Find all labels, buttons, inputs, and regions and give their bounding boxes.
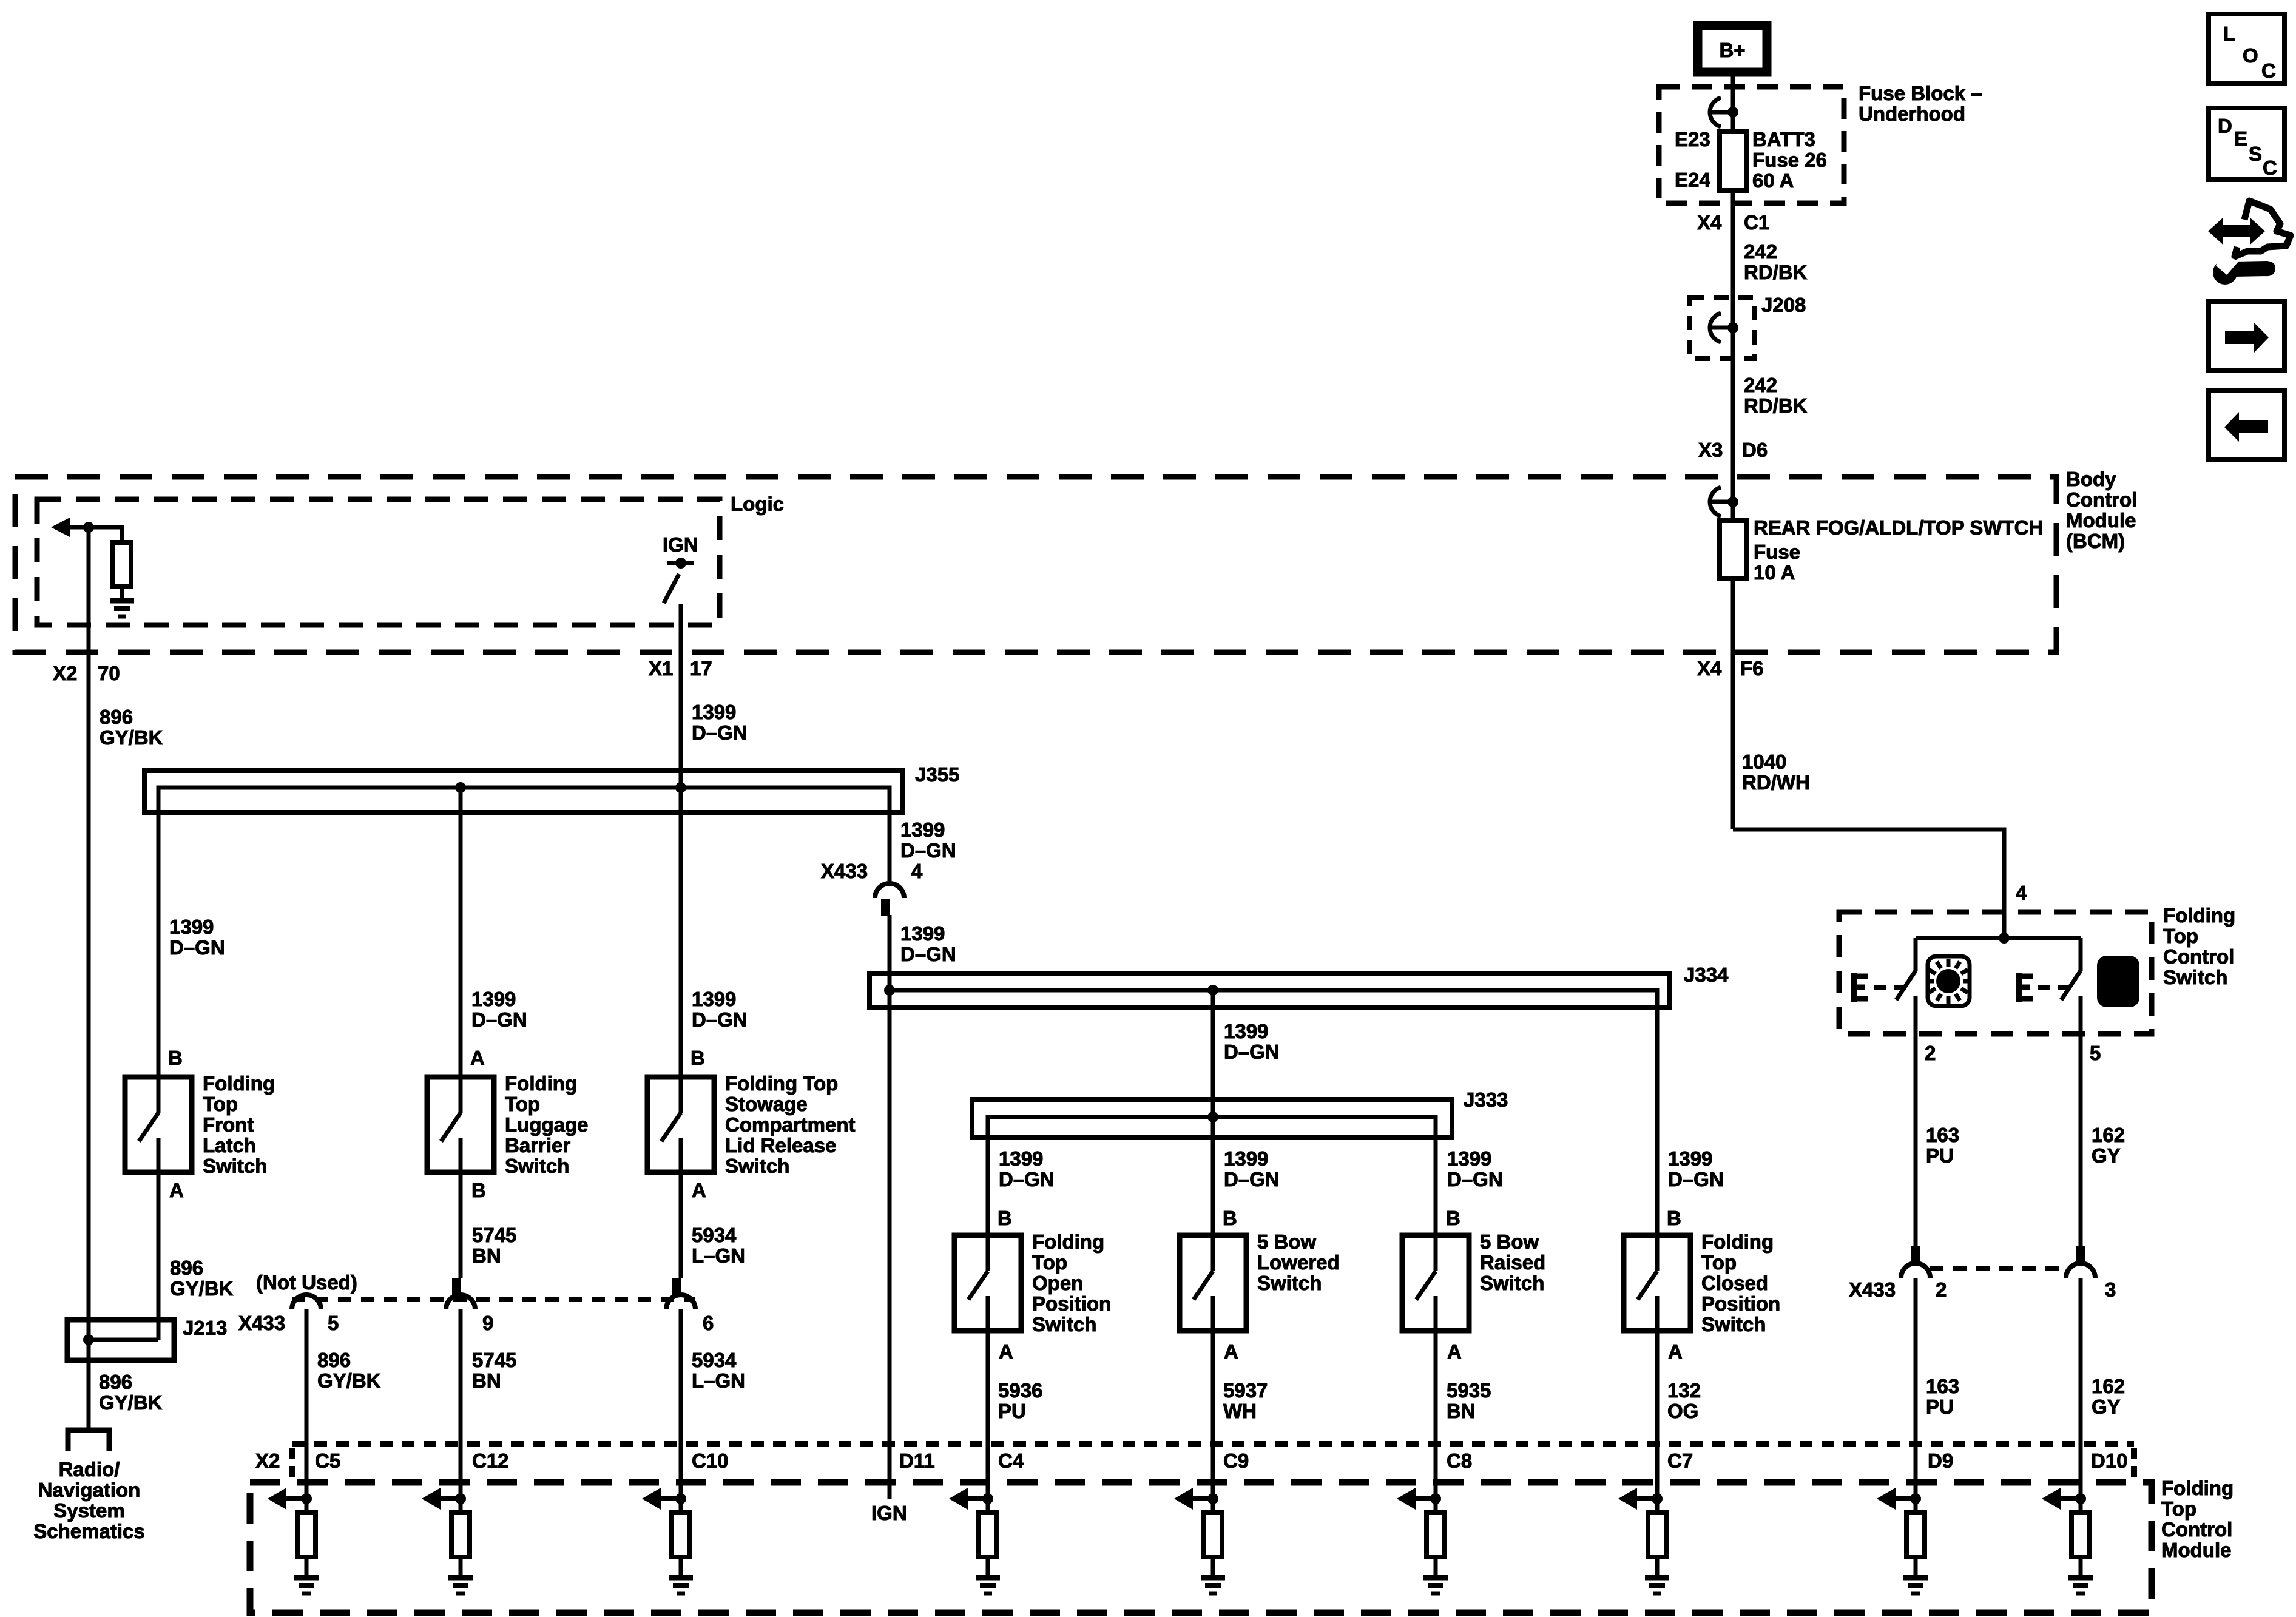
junction dot at splice J213 — [83, 1334, 94, 1345]
ground at C12 — [448, 1578, 473, 1593]
wire 5934 L-GN stowage lid release switch to X433-6 — [679, 1172, 683, 1278]
svg-text:Switch: Switch — [1032, 1313, 1096, 1335]
svg-text:1399: 1399 — [900, 922, 945, 945]
svg-text:1399: 1399 — [1668, 1147, 1712, 1170]
switch: 5 Bow Lowered Switch — [1180, 1235, 1246, 1331]
wire resistor to ground at C8 — [1434, 1557, 1438, 1576]
connector X433 cavity 4 — [875, 883, 904, 898]
svg-text:1399: 1399 — [999, 1147, 1043, 1170]
svg-text:REAR FOG/ALDL/TOP SWTCH: REAR FOG/ALDL/TOP SWTCH — [1754, 516, 2043, 539]
svg-text:Switch: Switch — [203, 1155, 267, 1177]
svg-text:BN: BN — [1447, 1400, 1476, 1422]
wire resistor to ground at C5 — [305, 1557, 309, 1576]
wire 1399 D-GN J333 to 5 bow lowered switch — [1211, 1117, 1215, 1235]
switch: Folding Top Closed Position Switch — [1624, 1235, 1690, 1331]
wire 5937 WH 5 bow lowered switch to module C9 — [1211, 1331, 1215, 1513]
svg-text:5934: 5934 — [692, 1224, 737, 1246]
svg-text:17: 17 — [690, 657, 712, 680]
svg-text:A: A — [470, 1047, 485, 1069]
svg-text:(Not Used): (Not Used) — [256, 1271, 357, 1294]
Folding Top Control Module dashed box — [250, 1482, 2152, 1613]
connector X433 cavity 3 — [2066, 1263, 2095, 1278]
svg-text:D–GN: D–GN — [169, 936, 225, 959]
svg-text:5: 5 — [328, 1312, 339, 1334]
svg-text:60 A: 60 A — [1752, 169, 1794, 192]
wire 896 GY/BK front latch switch to J213 — [157, 1172, 161, 1340]
wire resistor to ground at C9 — [1211, 1557, 1215, 1576]
svg-text:J333: J333 — [1464, 1089, 1508, 1111]
svg-text:GY/BK: GY/BK — [317, 1369, 381, 1392]
svg-text:F6: F6 — [1740, 657, 1764, 680]
fuse BATT3 Fuse 26 60A — [1720, 132, 1746, 191]
svg-text:Position: Position — [1032, 1292, 1111, 1315]
junction dot J334 center — [1207, 985, 1218, 996]
resistor at C8 — [1427, 1513, 1445, 1557]
svg-text:WH: WH — [1223, 1400, 1257, 1422]
module connector boundary (thin dashed) — [292, 1444, 2134, 1480]
svg-text:O: O — [2243, 44, 2258, 67]
svg-text:C7: C7 — [1667, 1450, 1693, 1472]
svg-text:D–GN: D–GN — [900, 839, 956, 862]
right switch contact of control switch (open) — [2061, 938, 2081, 1000]
off-page arrow at C10 — [642, 1488, 681, 1510]
svg-text:Underhood: Underhood — [1859, 103, 1965, 125]
svg-text:GY: GY — [2092, 1144, 2121, 1167]
fuse REAR FOG/ALDL/TOP SWTCH 10A — [1720, 521, 1746, 579]
svg-text:C: C — [2263, 157, 2277, 179]
svg-text:Top: Top — [505, 1093, 540, 1115]
svg-text:Folding: Folding — [2163, 904, 2235, 927]
resistor at D9 — [1906, 1513, 1925, 1557]
wire 5934 L-GN X433-6 to module C10 — [679, 1309, 683, 1513]
svg-text:Switch: Switch — [1480, 1272, 1544, 1294]
ground at C9 — [1201, 1578, 1225, 1593]
switch: 5 Bow Raised Switch — [1402, 1235, 1469, 1331]
svg-text:C1: C1 — [1744, 211, 1769, 234]
svg-text:A: A — [692, 1179, 706, 1201]
svg-text:Folding: Folding — [505, 1072, 577, 1095]
splice J213 box — [67, 1320, 174, 1360]
svg-text:X4: X4 — [1697, 211, 1722, 234]
svg-text:X433: X433 — [1849, 1278, 1896, 1301]
svg-text:Folding Top: Folding Top — [725, 1072, 838, 1095]
off-page arrow at C12 — [422, 1488, 461, 1510]
junction dot at D10 — [2075, 1493, 2086, 1504]
svg-text:1040: 1040 — [1742, 751, 1786, 773]
svg-text:D–GN: D–GN — [692, 1008, 748, 1031]
male pin X433-4 — [881, 899, 890, 916]
svg-text:Fuse 26: Fuse 26 — [1752, 149, 1827, 171]
svg-text:1399: 1399 — [692, 701, 736, 723]
resistor at C5 — [297, 1513, 316, 1557]
svg-text:D–GN: D–GN — [1224, 1168, 1280, 1190]
svg-text:BATT3: BATT3 — [1752, 128, 1815, 150]
wire resistor to ground at D10 — [2079, 1557, 2083, 1576]
splice pack J334 — [869, 973, 1670, 1008]
svg-text:1399: 1399 — [1447, 1147, 1491, 1170]
svg-text:RD/WH: RD/WH — [1742, 771, 1810, 794]
resistor at C12 — [451, 1513, 470, 1557]
junction dot inside control switch — [1999, 933, 2010, 944]
ground at D9 — [1903, 1578, 1928, 1593]
junction dot at C9 — [1207, 1493, 1218, 1504]
ground at D10 — [2068, 1578, 2093, 1593]
svg-text:A: A — [1447, 1340, 1462, 1363]
svg-text:A: A — [999, 1340, 1013, 1363]
svg-text:C9: C9 — [1223, 1450, 1249, 1472]
svg-text:Stowage: Stowage — [725, 1093, 808, 1115]
wire 1399 D-GN J355 to X433-4 — [888, 788, 892, 883]
junction dot at C4 — [982, 1493, 993, 1504]
resistor at C9 — [1204, 1513, 1222, 1557]
svg-text:S: S — [2249, 143, 2262, 165]
svg-text:E: E — [2234, 127, 2247, 150]
svg-text:132: 132 — [1667, 1379, 1701, 1402]
svg-text:5936: 5936 — [998, 1379, 1042, 1402]
svg-text:X1: X1 — [649, 657, 673, 680]
switch: Folding Top Open Position Switch — [954, 1235, 1021, 1331]
svg-text:GY: GY — [2092, 1396, 2121, 1418]
male pin X433-2 — [1911, 1246, 1920, 1263]
svg-text:Control: Control — [2066, 488, 2137, 511]
svg-text:Folding: Folding — [1032, 1230, 1104, 1253]
wire 1399 D-GN J334 to closed position switch — [1655, 1008, 1660, 1235]
junction dot J355 to luggage barrier switch — [455, 782, 466, 793]
svg-text:Lid Release: Lid Release — [725, 1134, 836, 1156]
svg-text:Closed: Closed — [1701, 1272, 1768, 1294]
svg-text:D6: D6 — [1742, 439, 1768, 461]
svg-text:IGN: IGN — [871, 1502, 907, 1524]
wire 163 PU X433-2 to module D9 — [1914, 1278, 1918, 1513]
svg-text:896: 896 — [170, 1257, 203, 1279]
DESC icon box — [2209, 108, 2284, 180]
svg-text:(BCM): (BCM) — [2066, 530, 2125, 552]
junction dot at C12 — [455, 1493, 466, 1504]
svg-text:5: 5 — [2090, 1042, 2101, 1064]
svg-text:B: B — [690, 1047, 705, 1069]
svg-text:242: 242 — [1744, 240, 1777, 263]
svg-text:J213: J213 — [183, 1317, 227, 1339]
svg-text:Control: Control — [2161, 1518, 2232, 1541]
svg-text:Top: Top — [2163, 925, 2198, 947]
svg-text:5745: 5745 — [472, 1349, 516, 1371]
svg-text:X2: X2 — [53, 662, 77, 684]
wire resistor to ground at C12 — [459, 1557, 463, 1576]
svg-text:X433: X433 — [238, 1312, 285, 1334]
svg-text:J334: J334 — [1684, 964, 1729, 986]
svg-text:X2: X2 — [255, 1450, 280, 1472]
resistor at C7 — [1648, 1513, 1666, 1557]
svg-text:Navigation: Navigation — [38, 1479, 141, 1501]
svg-text:10 A: 10 A — [1754, 561, 1795, 584]
svg-text:163: 163 — [1926, 1375, 1959, 1397]
off-page arrow at D10 — [2042, 1488, 2081, 1510]
svg-text:5935: 5935 — [1447, 1379, 1491, 1402]
junction dot at C8 — [1430, 1493, 1441, 1504]
svg-text:Top: Top — [203, 1093, 238, 1115]
svg-text:C8: C8 — [1447, 1450, 1472, 1472]
svg-text:B: B — [168, 1047, 183, 1069]
svg-text:4: 4 — [2016, 882, 2027, 904]
wire B+ down to BCM (242 RD/BK then through fuses) — [1731, 72, 1735, 829]
svg-text:3: 3 — [2105, 1278, 2116, 1301]
off-page arrow inside Logic — [51, 518, 89, 537]
wire 896 GY/BK X433-5 to module C5 — [305, 1309, 309, 1513]
svg-text:E24: E24 — [1675, 169, 1710, 191]
off-page arrow at D9 — [1877, 1488, 1916, 1510]
X433 inline connector dashed line (left) — [292, 1297, 695, 1302]
fuse block underhood dashed box — [1659, 87, 1844, 203]
svg-text:5745: 5745 — [472, 1224, 516, 1246]
male pin X433-6 — [672, 1278, 681, 1296]
off-page arrow at C9 — [1174, 1488, 1213, 1510]
Body Control Module dashed box — [15, 477, 2056, 652]
svg-text:4: 4 — [911, 860, 923, 882]
svg-text:Fuse: Fuse — [1754, 541, 1800, 563]
wire resistor to ground in Logic box — [120, 587, 124, 599]
svg-text:B+: B+ — [1719, 39, 1745, 61]
junction dot J355 at ignition feed — [675, 782, 686, 793]
svg-text:5 Bow: 5 Bow — [1257, 1230, 1317, 1253]
black button icon — [2097, 956, 2139, 1007]
svg-text:Top: Top — [1032, 1251, 1067, 1274]
wire 162 GY control switch to X433-3 — [2079, 996, 2083, 1246]
junction dot at C10 — [675, 1493, 686, 1504]
svg-text:Switch: Switch — [725, 1155, 789, 1177]
E position marker right — [2016, 973, 2070, 1002]
junction dot at C5 — [301, 1493, 312, 1504]
wire 162 GY X433-3 to module D10 — [2079, 1278, 2083, 1513]
svg-text:D–GN: D–GN — [1224, 1041, 1280, 1063]
resistor at C4 — [979, 1513, 997, 1557]
svg-text:1399: 1399 — [1224, 1147, 1268, 1170]
svg-text:1399: 1399 — [1224, 1020, 1268, 1042]
svg-text:Logic: Logic — [731, 493, 784, 515]
svg-text:Switch: Switch — [2163, 966, 2227, 988]
svg-text:1399: 1399 — [692, 988, 736, 1010]
svg-text:B: B — [1667, 1207, 1681, 1229]
clip terminal at BCM fuse — [1710, 487, 1738, 516]
svg-text:5934: 5934 — [692, 1349, 737, 1371]
wire 1399 D-GN J355 to front latch switch — [157, 788, 161, 1077]
back arrow icon box — [2209, 391, 2284, 460]
ground at C5 — [294, 1578, 319, 1593]
svg-text:Folding: Folding — [2161, 1477, 2234, 1499]
switch: Folding Top Front Latch Switch — [125, 1077, 192, 1172]
svg-text:5937: 5937 — [1223, 1379, 1268, 1402]
male pin X433-9 — [452, 1278, 461, 1296]
svg-text:J208: J208 — [1761, 294, 1806, 316]
svg-text:D–GN: D–GN — [1668, 1168, 1724, 1190]
svg-text:PU: PU — [998, 1400, 1026, 1422]
svg-text:D–GN: D–GN — [999, 1168, 1055, 1190]
svg-text:PU: PU — [1926, 1144, 1954, 1167]
svg-text:Latch: Latch — [203, 1134, 256, 1156]
svg-text:Front: Front — [203, 1113, 254, 1136]
svg-text:Switch: Switch — [1257, 1272, 1322, 1294]
Folding Top Control Switch dashed box — [1839, 912, 2152, 1034]
svg-text:Radio/: Radio/ — [59, 1458, 120, 1480]
svg-text:242: 242 — [1744, 374, 1777, 396]
svg-text:L–GN: L–GN — [692, 1244, 745, 1267]
wire 5745 BN luggage barrier switch to X433-9 — [459, 1172, 463, 1278]
svg-text:Open: Open — [1032, 1272, 1083, 1294]
connector X433 cavity 6 — [666, 1295, 695, 1309]
svg-text:Luggage: Luggage — [505, 1113, 589, 1136]
splice pack J355 — [144, 771, 902, 812]
svg-text:Top: Top — [1701, 1251, 1737, 1274]
male pin X433-3 — [2076, 1246, 2085, 1263]
svg-text:163: 163 — [1926, 1124, 1959, 1146]
svg-text:L–GN: L–GN — [692, 1369, 745, 1392]
svg-text:GY/BK: GY/BK — [100, 726, 163, 749]
wire resistor to ground at C4 — [986, 1557, 990, 1576]
left switch contact of control switch (open) — [1896, 938, 1916, 1000]
svg-text:Switch: Switch — [1701, 1313, 1766, 1335]
wire 132 OG closed position switch to module C7 — [1655, 1331, 1660, 1513]
wire 1399 D-GN J334 to J333 — [1211, 990, 1215, 1117]
svg-text:2: 2 — [1925, 1042, 1936, 1064]
wire resistor to ground at D9 — [1914, 1557, 1918, 1576]
svg-text:Lowered: Lowered — [1257, 1251, 1340, 1274]
forward arrow icon box — [2209, 302, 2284, 371]
off-page arrow at C4 — [949, 1488, 988, 1510]
svg-text:BN: BN — [472, 1369, 501, 1392]
wire 896 GY/BK from Logic to Radio off-page — [87, 527, 91, 1430]
connector X433 cavity 9 — [446, 1295, 475, 1309]
wire 1399 D-GN J355 to luggage barrier switch — [459, 788, 463, 1077]
connector X433 cavity 2 — [1901, 1263, 1930, 1278]
ground at C7 — [1645, 1578, 1669, 1593]
svg-text:162: 162 — [2092, 1375, 2125, 1397]
wire junction to internal resistor — [89, 527, 122, 542]
svg-text:Position: Position — [1701, 1292, 1780, 1315]
svg-text:896: 896 — [100, 706, 133, 728]
off-page arrow at C7 — [1618, 1488, 1657, 1510]
svg-text:2: 2 — [1936, 1278, 1947, 1301]
svg-text:X4: X4 — [1697, 657, 1722, 680]
resistor in Logic box — [113, 542, 131, 587]
svg-text:D–GN: D–GN — [471, 1008, 527, 1031]
lamp indicator icon — [1926, 956, 1971, 1006]
svg-text:OG: OG — [1667, 1400, 1698, 1422]
svg-text:1399: 1399 — [169, 916, 214, 938]
svg-text:B: B — [1446, 1207, 1460, 1229]
wire 1399 D-GN J333 to open position switch — [986, 1117, 990, 1235]
svg-text:C10: C10 — [692, 1450, 729, 1472]
svg-text:9: 9 — [482, 1312, 493, 1334]
svg-text:6: 6 — [703, 1312, 714, 1334]
svg-text:Barrier: Barrier — [505, 1134, 570, 1156]
svg-text:D–GN: D–GN — [900, 943, 956, 965]
svg-text:L: L — [2223, 22, 2235, 45]
ground in Logic box — [110, 601, 134, 616]
svg-text:Body: Body — [2066, 468, 2116, 490]
wire 1399 D-GN X433-4 through J334 to module D11 (IGN) — [888, 915, 892, 1499]
svg-text:IGN: IGN — [663, 533, 698, 556]
svg-text:X3: X3 — [1698, 439, 1723, 461]
svg-text:Control: Control — [2163, 945, 2234, 968]
svg-text:C12: C12 — [472, 1450, 509, 1472]
svg-text:RD/BK: RD/BK — [1744, 261, 1808, 283]
svg-text:System: System — [53, 1499, 124, 1522]
svg-text:A: A — [1668, 1340, 1683, 1363]
E position marker left — [1851, 973, 1906, 1002]
svg-text:GY/BK: GY/BK — [170, 1277, 234, 1300]
wiring repair icon (double arrow, harness outline, wrench) — [2210, 201, 2291, 283]
off-page arrow at C8 — [1397, 1488, 1436, 1510]
off-page arrow at C5 — [268, 1488, 306, 1510]
ground at C4 — [976, 1578, 1000, 1593]
svg-text:BN: BN — [472, 1244, 501, 1267]
wire 5936 PU open position switch to module C4 — [986, 1331, 990, 1513]
splice J208 dashed box — [1690, 297, 1754, 359]
svg-text:Raised: Raised — [1480, 1251, 1545, 1274]
svg-text:B: B — [471, 1179, 486, 1201]
LOC icon box — [2209, 14, 2284, 83]
svg-text:D11: D11 — [899, 1450, 935, 1472]
junction dot in Logic box — [83, 522, 94, 533]
wire resistor to ground at C7 — [1655, 1557, 1660, 1576]
svg-text:Folding: Folding — [203, 1072, 275, 1095]
svg-text:896: 896 — [99, 1371, 132, 1393]
svg-text:Folding: Folding — [1701, 1230, 1774, 1253]
wire 5745 BN X433-9 to module C12 — [459, 1309, 463, 1513]
svg-text:C: C — [2261, 59, 2276, 82]
svg-text:70: 70 — [98, 662, 120, 684]
wire 1399 D-GN J333 to 5 bow raised switch — [1434, 1117, 1438, 1235]
B+ power symbol box — [1698, 25, 1767, 72]
svg-text:Module: Module — [2066, 509, 2136, 532]
switch: Folding Top Luggage Barrier Switch — [427, 1077, 494, 1172]
svg-text:896: 896 — [317, 1349, 351, 1371]
switch: Folding Top Stowage Compartment Lid Release Switch — [647, 1077, 714, 1172]
Logic dashed box inside BCM — [37, 499, 720, 625]
svg-text:B: B — [1223, 1207, 1237, 1229]
svg-text:X433: X433 — [821, 860, 868, 882]
svg-text:B: B — [998, 1207, 1012, 1229]
svg-text:1399: 1399 — [900, 819, 945, 841]
svg-text:E23: E23 — [1675, 128, 1710, 150]
wire resistor to ground at C10 — [679, 1557, 683, 1576]
svg-text:Module: Module — [2161, 1539, 2231, 1561]
svg-text:D9: D9 — [1928, 1450, 1953, 1472]
wire 1399 D-GN from IGN switch through X1-17 to J355 and switch — [679, 604, 683, 1077]
wire 1040 RD/WH from BCM F6 to folding top control switch — [1733, 829, 2004, 938]
svg-text:Compartment: Compartment — [725, 1113, 856, 1136]
junction dot at D9 — [1910, 1493, 1921, 1504]
svg-text:D10: D10 — [2091, 1450, 2128, 1472]
resistor at C10 — [672, 1513, 690, 1557]
fuse clip terminal at BATT3 fuse — [1710, 98, 1738, 127]
off-page connector to Radio/Navigation — [68, 1430, 109, 1451]
svg-text:J355: J355 — [915, 763, 959, 786]
wire across control switch contacts — [1916, 936, 2081, 940]
svg-text:D–GN: D–GN — [692, 721, 748, 744]
svg-text:C5: C5 — [315, 1450, 340, 1472]
junction dot at C7 — [1652, 1493, 1663, 1504]
ground at C10 — [669, 1578, 693, 1593]
svg-text:Top: Top — [2161, 1497, 2196, 1520]
wire 163 PU control switch to X433-2 — [1914, 996, 1918, 1246]
X433 inline connector dashed line (right) — [1930, 1266, 2067, 1271]
clip terminal at splice J208 — [1710, 313, 1738, 342]
svg-text:A: A — [169, 1179, 184, 1201]
svg-text:RD/BK: RD/BK — [1744, 394, 1808, 417]
connector X433 cavity 5 (not used) — [292, 1295, 321, 1309]
wire 5935 BN 5 bow raised switch to module C8 — [1434, 1331, 1438, 1513]
svg-text:1399: 1399 — [471, 988, 516, 1010]
